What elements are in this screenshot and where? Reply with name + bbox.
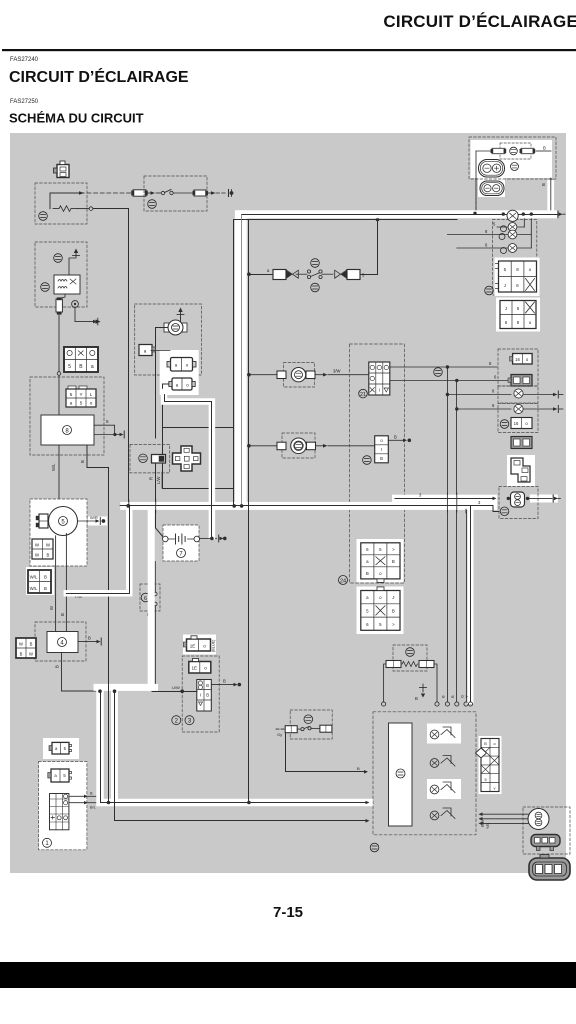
svg-text:21: 21	[360, 392, 366, 398]
circled 21	[359, 389, 368, 398]
link verticals	[530, 214, 532, 248]
crossing wire redraws	[128, 500, 130, 506]
dashed box inline connector	[130, 444, 170, 473]
halo lighting feed horizontal	[120, 502, 497, 510]
svg-text:W: W	[29, 652, 33, 657]
svg-text:>: >	[392, 547, 395, 552]
svg-text:7-15: 7-15	[273, 904, 303, 921]
connector K1	[49, 742, 72, 754]
svg-text:B: B	[206, 683, 209, 688]
dashed box indicator cluster	[493, 220, 537, 296]
svg-text:Gy: Gy	[277, 732, 282, 737]
rectifier ground wire down then right	[62, 653, 98, 692]
circled 28 below box	[370, 843, 379, 852]
wire left to dimmer	[249, 274, 273, 276]
row i1	[497, 226, 524, 228]
key switch output wires	[69, 795, 84, 797]
key switch grid	[50, 794, 69, 830]
halo ground riser 1 + bottom ground bus	[100, 693, 369, 803]
bulb monitor circle	[511, 163, 519, 171]
svg-text:16: 16	[514, 421, 519, 426]
svg-text:3/W: 3/W	[333, 369, 340, 374]
dashed box headlight	[469, 137, 556, 179]
svg-text:B: B	[44, 586, 47, 591]
svg-text:SCHÉMA DU CIRCUIT: SCHÉMA DU CIRCUIT	[9, 111, 144, 126]
circled 13	[54, 254, 63, 263]
svg-text:5: 5	[70, 392, 73, 397]
svg-text:5: 5	[68, 364, 71, 370]
connector grid G1	[64, 347, 98, 372]
svg-text:B: B	[543, 146, 546, 151]
bus right edge wire down (to bottom)	[248, 220, 250, 803]
dashed box key switch	[39, 762, 87, 850]
svg-text:B: B	[357, 766, 360, 771]
svg-text:B: B	[366, 571, 369, 576]
down wires W/L and B of unit 8	[58, 445, 60, 499]
wire to right + long down wire to junction	[93, 209, 129, 506]
circled 25	[485, 286, 494, 295]
halo ground riser 2	[111, 693, 118, 798]
svg-text:a: a	[91, 364, 94, 370]
svg-text:B: B	[60, 613, 65, 616]
svg-text:I: I	[379, 388, 380, 393]
svg-text:B: B	[55, 665, 60, 668]
connector block CB2	[496, 298, 540, 332]
relay with diode	[54, 275, 80, 294]
magneto circle 5	[49, 507, 78, 536]
white panel	[160, 350, 199, 395]
connector lamp socket 2	[169, 378, 195, 390]
halo magneto Y/W wire	[67, 507, 130, 593]
dashed box meter	[373, 712, 476, 835]
bulb b2	[430, 756, 455, 768]
svg-text:Y: Y	[79, 392, 82, 397]
connector K2	[48, 769, 72, 782]
R wire down to battery	[156, 463, 164, 538]
relay block B1	[369, 362, 390, 395]
circled 9b	[363, 456, 372, 465]
svg-text:a: a	[70, 401, 73, 406]
svg-text:B: B	[450, 695, 455, 698]
circled 26	[500, 420, 509, 429]
svg-text:o: o	[204, 666, 207, 671]
bus left edge wire down	[233, 220, 235, 506]
row r3 with flasher lamp	[447, 394, 511, 396]
connector grid CGA	[357, 539, 404, 583]
svg-text:o: o	[90, 401, 93, 406]
feed wire down left column	[58, 318, 60, 414]
connector grid G4 below magneto	[26, 567, 54, 595]
left plug of magneto	[36, 514, 48, 528]
wire a to panel	[151, 350, 170, 352]
circled 24	[339, 576, 348, 585]
circled 12	[39, 212, 48, 221]
strip connector right	[476, 736, 502, 794]
dashed box unit 8	[30, 377, 104, 455]
svg-text:FAS27250: FAS27250	[10, 99, 39, 105]
svg-text:B: B	[80, 460, 85, 463]
ground arrow	[69, 252, 76, 275]
svg-text:16: 16	[515, 357, 520, 362]
circled 2 and 3	[172, 716, 181, 725]
svg-text:W/L: W/L	[30, 586, 38, 591]
headlight right feed wire (haloed)	[547, 180, 554, 212]
dashed box main switch chain (14)	[144, 176, 207, 211]
resistor R	[53, 206, 77, 212]
box unit 8	[41, 415, 94, 445]
rectifier right output B	[78, 641, 97, 643]
connector block CB1	[495, 258, 540, 297]
svg-text:R/W: R/W	[481, 819, 485, 827]
dashed box rear flasher cluster	[498, 349, 538, 386]
svg-text:Y: Y	[493, 787, 496, 791]
small connector 18b	[508, 375, 532, 387]
dimmer connector right	[335, 270, 360, 280]
circled 19 below	[311, 283, 320, 292]
svg-text:W/L: W/L	[30, 575, 38, 580]
U/W wire into switch	[152, 691, 197, 693]
switch contacts	[307, 270, 310, 273]
small connector 18a	[510, 354, 532, 365]
svg-text:5: 5	[484, 778, 486, 782]
svg-text:B: B	[541, 183, 546, 186]
switch contacts	[156, 192, 161, 194]
halo meter feed	[468, 508, 474, 701]
ground symbol	[422, 684, 424, 692]
tail light connector	[531, 835, 560, 851]
svg-text:B: B	[380, 456, 383, 461]
terminator node A	[228, 190, 230, 197]
output wires of 8	[94, 425, 115, 434]
circled 22	[434, 368, 443, 377]
lighting feed center line	[120, 506, 499, 512]
junction dots bottom	[98, 689, 102, 693]
bus junction dots	[473, 212, 476, 215]
row r4 with flasher lamp	[457, 408, 511, 410]
svg-text:J: J	[505, 306, 507, 311]
small connector a	[139, 345, 156, 356]
svg-text:B: B	[441, 695, 446, 698]
svg-text:W: W	[19, 642, 23, 647]
footer black bar	[0, 962, 576, 988]
halo main bus vertical pair	[235, 210, 247, 507]
relay block B2	[375, 436, 389, 463]
turn signal feed center	[165, 395, 212, 537]
svg-text:B: B	[223, 679, 226, 684]
halo main bus horizontal	[236, 210, 558, 218]
headlight bulb stadium	[479, 160, 505, 178]
dashed feed wire to fuse	[87, 192, 133, 194]
svg-text:J: J	[504, 283, 506, 288]
dashed box front flasher r4	[498, 404, 538, 433]
connector 2	[189, 659, 211, 674]
svg-text:o: o	[203, 644, 206, 649]
dashed box 24	[350, 344, 405, 583]
T shaped connector	[507, 455, 535, 486]
position lamp stadium	[480, 181, 504, 196]
cross connector	[173, 446, 201, 471]
connector grid G2	[66, 386, 96, 407]
connector c2 gray	[511, 437, 532, 449]
circled 1	[43, 838, 52, 847]
svg-text:a: a	[144, 349, 147, 354]
svg-text:1E: 1E	[190, 644, 196, 649]
meter feed center	[470, 506, 472, 702]
connector J1 top-left	[54, 161, 70, 178]
L/W wire down corner	[161, 472, 163, 488]
wire lower with terminal circle	[77, 208, 89, 210]
svg-text:J: J	[392, 595, 394, 600]
inner dashed fuse box	[500, 143, 531, 159]
svg-text:I: I	[381, 447, 382, 452]
ground wire B of unit 8 (long)	[87, 445, 109, 800]
circled 8	[63, 426, 72, 435]
dashed box tail light	[523, 807, 570, 854]
bulb b1 white panel	[427, 724, 461, 744]
svg-text:B: B	[392, 609, 395, 614]
svg-text:B: B	[30, 642, 33, 647]
bulb b3 white panel	[427, 779, 461, 799]
wire right up to bus	[360, 220, 378, 275]
connector lamp socket 1	[167, 358, 196, 372]
dimmer connector left	[273, 270, 298, 280]
svg-text:FAS27240: FAS27240	[10, 57, 39, 63]
svg-text:W/R: W/R	[90, 515, 98, 520]
header rule	[2, 49, 576, 51]
svg-text:Y/B: Y/B	[486, 823, 490, 829]
flasher relay circle 16	[164, 320, 187, 335]
svg-text:B: B	[392, 559, 395, 564]
connector c1	[511, 418, 532, 429]
svg-text:B: B	[20, 652, 23, 657]
high beam indicator bulb on bus	[507, 210, 518, 221]
junction dots on lighting feed	[126, 504, 130, 508]
connector 1 (BLUE)	[183, 636, 210, 651]
tail wires	[482, 813, 529, 815]
svg-text:B: B	[415, 696, 418, 701]
svg-text:B: B	[484, 742, 487, 746]
svg-text:6: 6	[144, 596, 147, 602]
svg-text:1E: 1E	[191, 666, 197, 671]
main bus lower line	[234, 219, 458, 221]
dashed box front flasher r3	[498, 386, 538, 403]
bus terminator right	[557, 211, 559, 218]
svg-text:24: 24	[340, 578, 346, 584]
svg-text:B: B	[206, 693, 209, 698]
ground riser 2 center + lower ground line	[115, 692, 366, 821]
svg-text:CIRCUIT D’ÉCLAIRAGE: CIRCUIT D’ÉCLAIRAGE	[9, 67, 189, 86]
circled 9	[41, 283, 50, 292]
magneto down wires	[55, 536, 57, 632]
main bus mid divider vertical	[241, 215, 243, 506]
wire down from 29 to meter	[286, 733, 365, 772]
svg-text:W: W	[49, 606, 54, 610]
block B2 output wire	[388, 439, 403, 441]
connector grid G3 inside magneto box	[32, 539, 53, 559]
switch right output B	[211, 684, 233, 686]
halo turn signal feed L-wire	[164, 392, 212, 536]
headlight left feed wire	[475, 151, 477, 213]
svg-text:R: R	[149, 477, 154, 480]
svg-text:L/W: L/W	[156, 477, 161, 484]
ground riser 1 + bottom bus center	[101, 692, 366, 803]
circled 14	[148, 200, 157, 209]
magneto Y/W center	[66, 506, 129, 594]
schematic gray panel	[10, 133, 566, 873]
lamp housing tall rect	[389, 723, 413, 826]
dashed box flasher	[135, 304, 202, 375]
connector 1 white halo	[183, 635, 216, 655]
row r2	[390, 380, 508, 382]
dashed box relay (9/13)	[35, 242, 87, 307]
spare oval connector	[529, 855, 570, 881]
connector grid CGB	[357, 587, 404, 635]
fuse F3 vertical	[56, 298, 62, 315]
dashed white box magneto	[30, 499, 87, 566]
W/R output wire with halo	[88, 517, 107, 526]
svg-text:L: L	[90, 392, 93, 397]
fuse chain	[476, 150, 492, 152]
wire upper in box	[50, 193, 84, 209]
lead circle and page link	[72, 301, 79, 308]
connector grid G5 left of rectifier	[16, 638, 36, 658]
svg-text:U/W: U/W	[172, 685, 180, 690]
headlamp relay feed line	[395, 498, 493, 500]
svg-text:5: 5	[80, 401, 83, 406]
circled 11	[139, 454, 148, 463]
white halo conn K1	[43, 738, 79, 759]
ground arrow top	[180, 311, 182, 321]
svg-text:B: B	[44, 575, 47, 580]
wire flasher to R feed	[180, 317, 182, 322]
wire relay to fuse	[59, 294, 65, 299]
svg-text:>: >	[392, 622, 395, 627]
svg-text:B: B	[394, 434, 397, 439]
dashed box main switch	[182, 656, 219, 732]
svg-text:(BLUE): (BLUE)	[212, 639, 216, 652]
wire from panel down with right branch	[163, 384, 234, 506]
battery minus row to ground	[200, 537, 209, 539]
row r1	[390, 366, 497, 368]
svg-text:Y: Y	[464, 695, 469, 698]
dashed box rectifier	[35, 622, 86, 661]
svg-text:o: o	[493, 742, 495, 746]
svg-text:I: I	[200, 693, 201, 698]
white interior	[471, 140, 553, 178]
fuse F2	[193, 190, 208, 196]
row i3	[457, 247, 532, 249]
rectifier box 4	[47, 632, 78, 653]
dashed box horn unit (12)	[35, 183, 87, 224]
switch block	[197, 680, 212, 712]
halo U/W main switch wire	[97, 509, 155, 687]
svg-text:B: B	[88, 636, 91, 641]
row i2	[447, 234, 531, 236]
tail light bulb	[528, 809, 549, 830]
svg-text:CIRCUIT D’ÉCLAIRAGE: CIRCUIT D’ÉCLAIRAGE	[383, 12, 576, 31]
bulb b4	[430, 808, 455, 820]
fuse F1	[132, 190, 148, 196]
inline connector pair	[152, 455, 166, 464]
svg-text:W/L: W/L	[51, 463, 56, 471]
svg-text:B: B	[47, 553, 50, 558]
main bus upper line	[242, 214, 558, 216]
svg-text:B/L: B/L	[90, 806, 96, 810]
circled 15 above	[311, 259, 320, 268]
